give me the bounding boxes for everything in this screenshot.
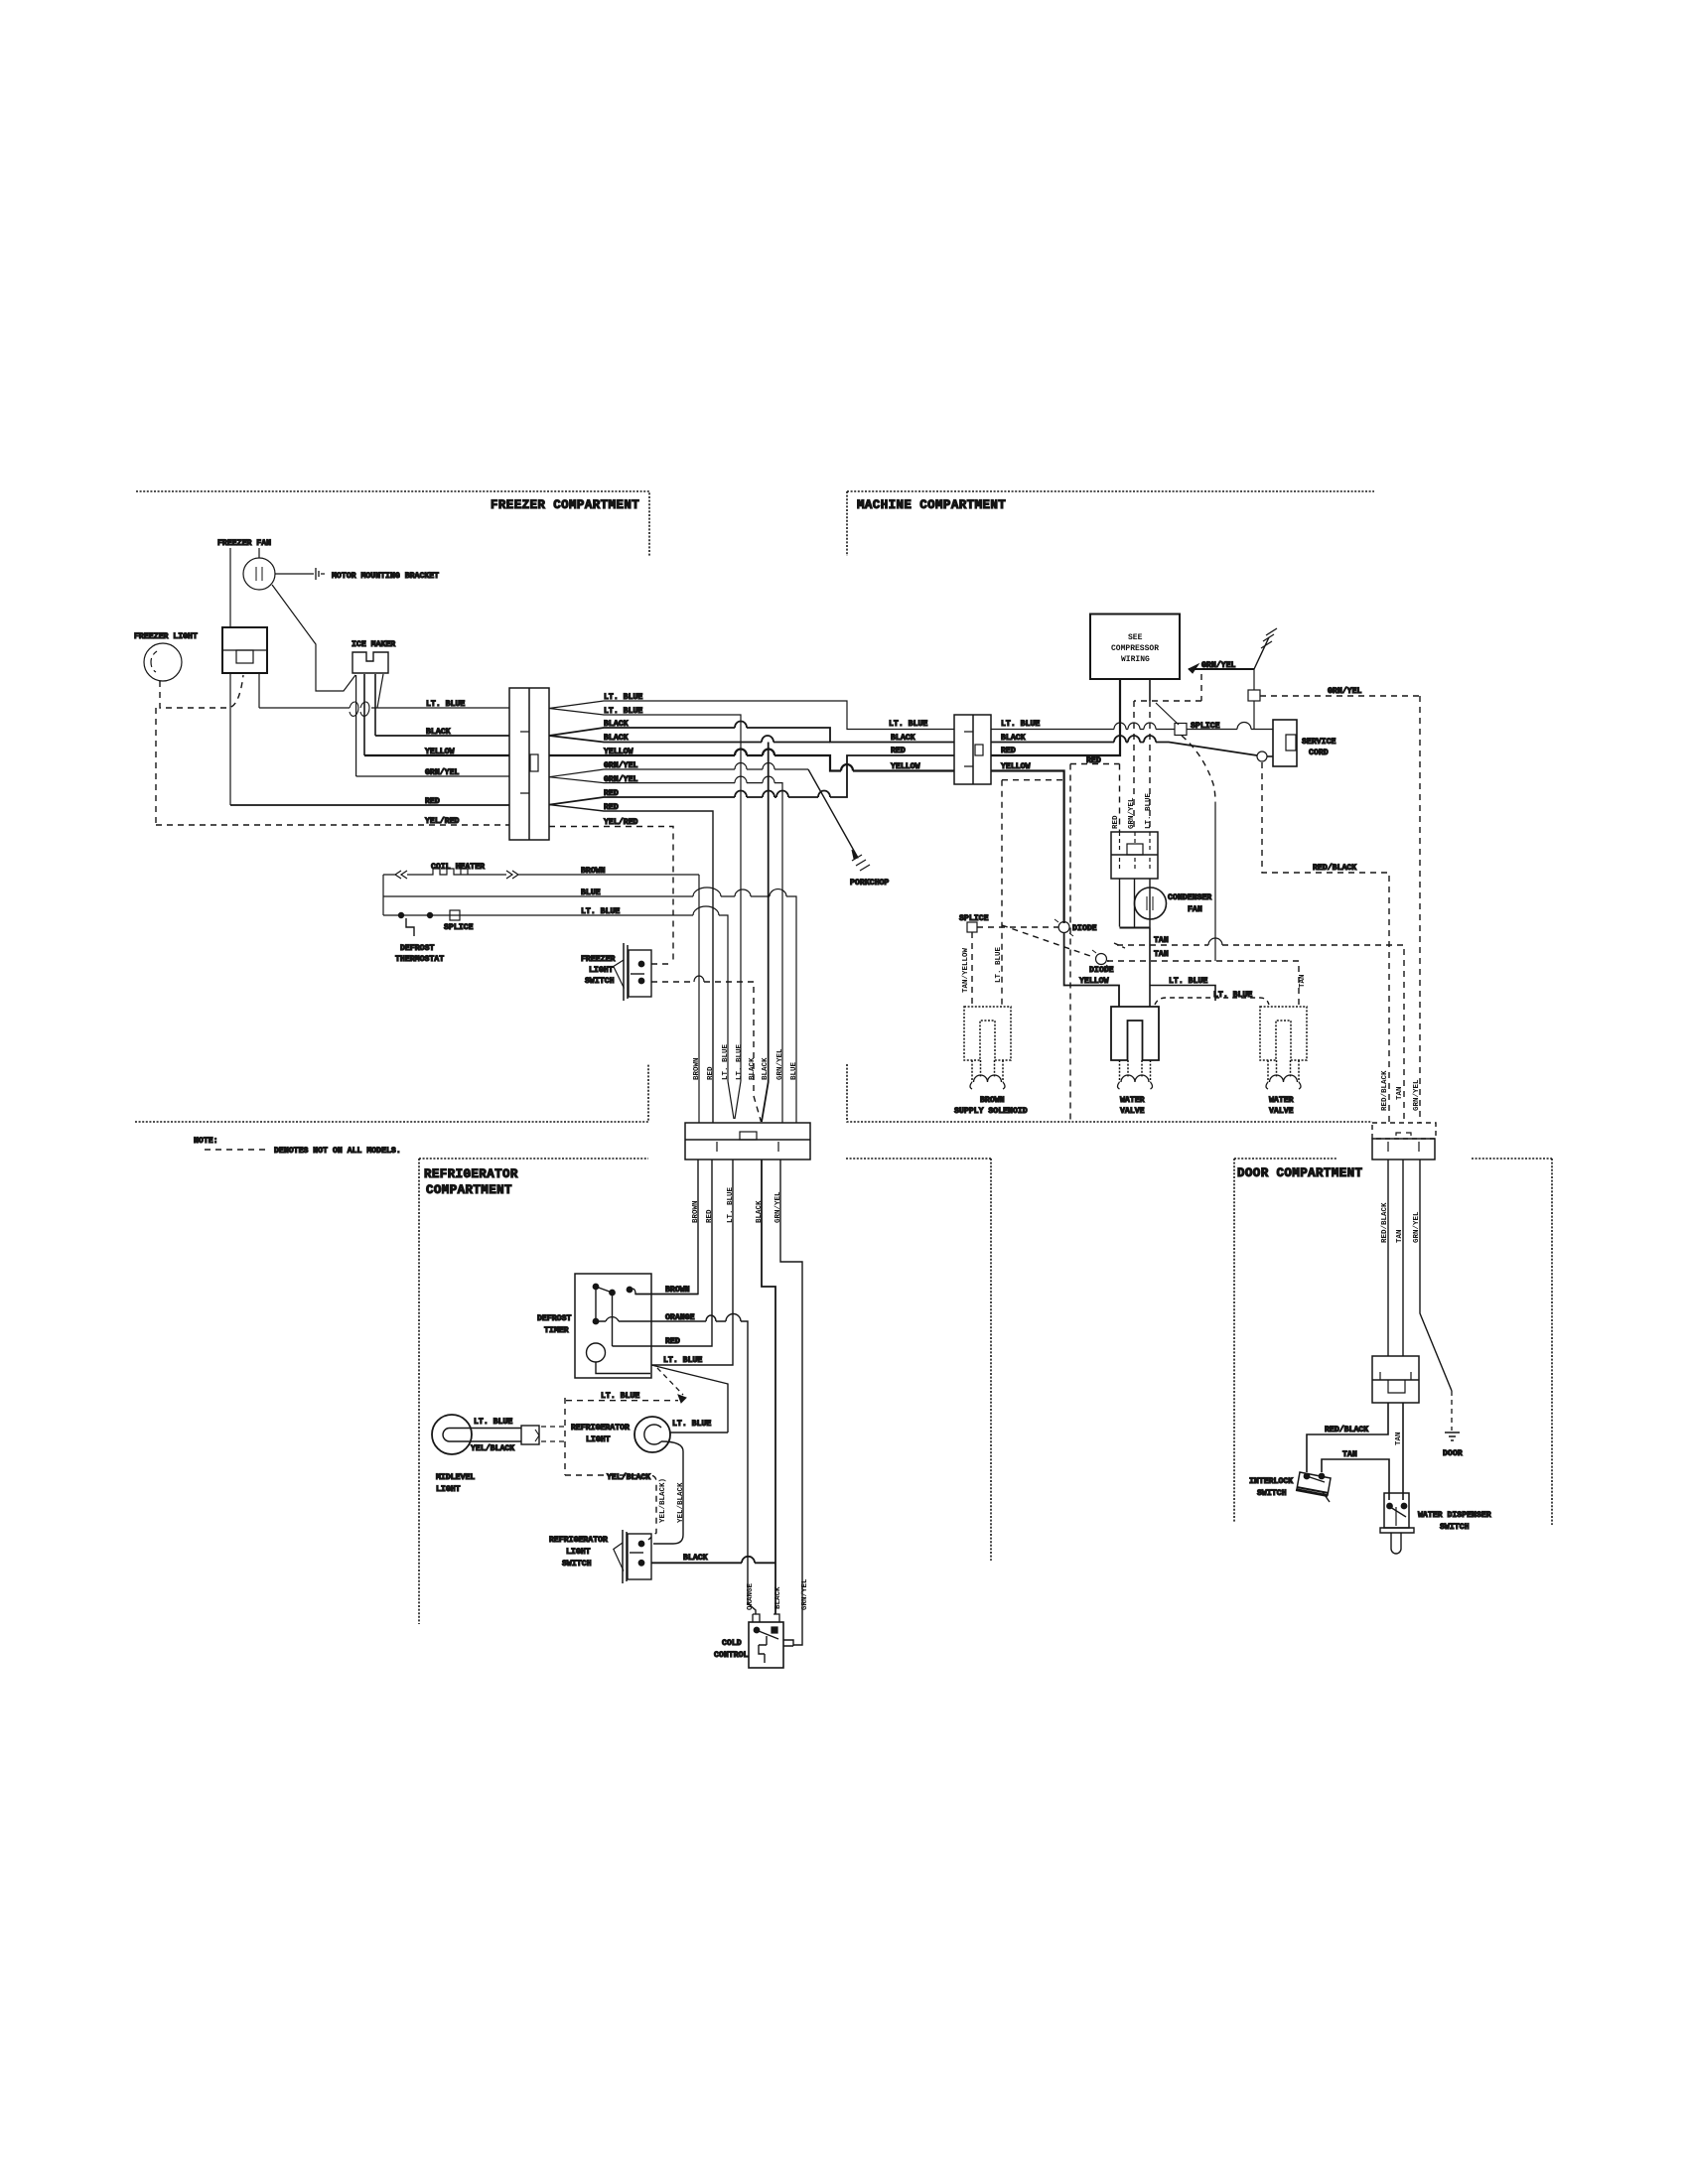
svg-text:LT. BLUE: LT. BLUE [727,1186,735,1223]
svg-text:RED: RED [665,1337,680,1346]
svg-text:INTERLOCK: INTERLOCK [1249,1477,1293,1486]
svg-text:DOOR: DOOR [1443,1449,1463,1458]
svg-text:BROWN: BROWN [665,1286,690,1295]
svg-text:DENOTES NOT ON ALL MODELS.: DENOTES NOT ON ALL MODELS. [274,1147,401,1156]
svg-text:BLACK: BLACK [891,734,915,743]
svg-text:YEL/BLACK: YEL/BLACK [607,1472,650,1482]
svg-text:GRN/YEL: GRN/YEL [1328,686,1361,696]
svg-text:BLACK: BLACK [762,1057,770,1080]
svg-text:GRN/YEL: GRN/YEL [776,1048,784,1080]
svg-text:SPLICE: SPLICE [444,923,474,932]
svg-text:ICE MAKER: ICE MAKER [352,640,395,649]
svg-text:DIODE: DIODE [1072,924,1097,933]
svg-text:BROWN: BROWN [693,1057,701,1080]
svg-text:SWITCH: SWITCH [562,1560,592,1569]
svg-text:LT. BLUE: LT. BLUE [1145,792,1153,829]
svg-text:YEL/RED: YEL/RED [604,817,637,827]
svg-text:COMPARTMENT: COMPARTMENT [426,1183,512,1197]
svg-text:GRN/YEL: GRN/YEL [1413,1211,1421,1243]
svg-text:DEFROST: DEFROST [400,944,434,953]
svg-text:VALVE: VALVE [1120,1107,1145,1116]
svg-text:RED/BLACK: RED/BLACK [1313,863,1356,873]
svg-text:LIGHT: LIGHT [589,966,614,975]
svg-text:BROWN: BROWN [581,867,606,876]
svg-text:LT. BLUE: LT. BLUE [722,1043,730,1080]
svg-text:FREEZER FAN: FREEZER FAN [217,539,271,548]
svg-text:BROWN: BROWN [692,1200,700,1223]
svg-text:YELLOW: YELLOW [1079,977,1109,986]
svg-text:BLACK: BLACK [756,1200,764,1223]
svg-text:DEFROST: DEFROST [537,1314,571,1323]
svg-text:TAN: TAN [1154,936,1169,945]
svg-text:MACHINE COMPARTMENT: MACHINE COMPARTMENT [857,498,1006,512]
svg-text:WATER DISPENSER: WATER DISPENSER [1418,1511,1491,1520]
svg-text:BLUE: BLUE [790,1061,798,1080]
svg-text:SWITCH: SWITCH [585,977,615,986]
svg-text:DIODE: DIODE [1089,966,1114,975]
svg-text:TIMER: TIMER [544,1326,569,1335]
svg-text:GRN/YEL: GRN/YEL [801,1578,809,1610]
svg-text:YELLOW: YELLOW [891,762,920,771]
svg-text:GRN/YEL: GRN/YEL [1128,797,1136,829]
svg-text:COMPRESSOR: COMPRESSOR [1111,644,1159,653]
svg-text:FREEZER LIGHT: FREEZER LIGHT [134,632,198,641]
svg-text:VALVE: VALVE [1269,1107,1294,1116]
svg-text:BLACK: BLACK [774,1586,782,1609]
svg-text:LIGHT: LIGHT [566,1548,591,1557]
svg-text:WATER: WATER [1269,1096,1294,1105]
svg-text:LT. BLUE: LT. BLUE [1001,720,1040,729]
svg-text:LT. BLUE: LT. BLUE [995,946,1003,983]
svg-text:DOOR COMPARTMENT: DOOR COMPARTMENT [1237,1166,1363,1180]
svg-text:BROWN: BROWN [980,1096,1005,1105]
svg-text:RED/BLACK: RED/BLACK [1381,1070,1389,1111]
svg-text:RED: RED [891,747,906,755]
svg-text:TAN/YELLOW: TAN/YELLOW [962,947,970,993]
svg-text:TAN: TAN [1299,974,1307,988]
svg-text:FREEZER: FREEZER [581,955,615,964]
svg-text:TAN: TAN [1154,950,1169,959]
svg-text:LIGHT: LIGHT [586,1435,611,1444]
svg-text:CONTROL: CONTROL [714,1651,748,1660]
svg-text:YEL/BLACK: YEL/BLACK [471,1443,514,1453]
svg-text:LIGHT: LIGHT [436,1485,461,1494]
svg-text:TAN: TAN [1342,1450,1357,1459]
svg-text:SERVICE: SERVICE [1302,738,1336,747]
svg-text:RED: RED [1001,747,1016,755]
svg-text:WIRING: WIRING [1121,655,1150,664]
svg-text:LT. BLUE: LT. BLUE [474,1418,512,1427]
svg-text:GRN/YEL: GRN/YEL [774,1191,782,1223]
svg-text:BLACK: BLACK [683,1554,708,1563]
svg-text:LT. BLUE: LT. BLUE [736,1043,744,1080]
svg-text:SUPPLY SOLENOID: SUPPLY SOLENOID [954,1107,1028,1116]
svg-text:REFRIGERATOR: REFRIGERATOR [549,1536,608,1545]
svg-text:RED: RED [1086,756,1101,765]
svg-text:SPLICE: SPLICE [1191,722,1220,731]
svg-text:SWITCH: SWITCH [1440,1523,1470,1532]
svg-text:YEL/BLACK: YEL/BLACK [677,1482,685,1523]
svg-text:TAN: TAN [1396,1229,1404,1243]
svg-text:LT. BLUE: LT. BLUE [889,720,927,729]
svg-text:NOTE:: NOTE: [194,1137,218,1146]
svg-text:LT. BLUE: LT. BLUE [1169,977,1207,986]
svg-text:FAN: FAN [1188,905,1202,914]
svg-text:CORD: CORD [1309,749,1329,757]
svg-text:SWITCH: SWITCH [1257,1489,1287,1498]
svg-text:RED/BLACK: RED/BLACK [1325,1425,1368,1434]
svg-text:REFRIGERATOR: REFRIGERATOR [571,1424,630,1433]
svg-text:FREEZER COMPARTMENT: FREEZER COMPARTMENT [491,498,639,512]
svg-text:CONDENSER: CONDENSER [1168,893,1211,902]
svg-text:MIDLEVEL: MIDLEVEL [436,1473,475,1482]
svg-text:RED: RED [706,1209,714,1223]
svg-text:TAN: TAN [1395,1432,1403,1445]
svg-text:LT. BLUE: LT. BLUE [1213,991,1252,1000]
svg-text:BLACK: BLACK [749,1057,757,1080]
svg-text:SEE: SEE [1128,633,1143,642]
svg-text:MOTOR MOUNTING BRACKET: MOTOR MOUNTING BRACKET [332,572,439,581]
svg-text:WATER: WATER [1120,1096,1145,1105]
svg-text:ORANGE: ORANGE [747,1582,755,1610]
svg-text:YEL/BLACK): YEL/BLACK) [659,1478,667,1523]
svg-text:PORKCHOP: PORKCHOP [850,879,889,887]
svg-text:RED: RED [1112,815,1120,829]
svg-text:COLD: COLD [722,1639,742,1648]
svg-text:RED: RED [707,1066,715,1080]
svg-text:COIL HEATER: COIL HEATER [431,863,485,872]
svg-text:LT. BLUE: LT. BLUE [663,1356,702,1365]
svg-text:ORANGE: ORANGE [665,1313,695,1322]
svg-text:LT. BLUE: LT. BLUE [672,1420,711,1429]
svg-text:THERMOSTAT: THERMOSTAT [395,955,444,964]
svg-text:TAN: TAN [1396,1086,1404,1100]
svg-text:SPLICE: SPLICE [959,914,989,923]
svg-text:LT. BLUE: LT. BLUE [601,1392,639,1401]
svg-text:REFRIGERATOR: REFRIGERATOR [424,1167,518,1181]
svg-text:RED/BLACK: RED/BLACK [1381,1202,1389,1243]
